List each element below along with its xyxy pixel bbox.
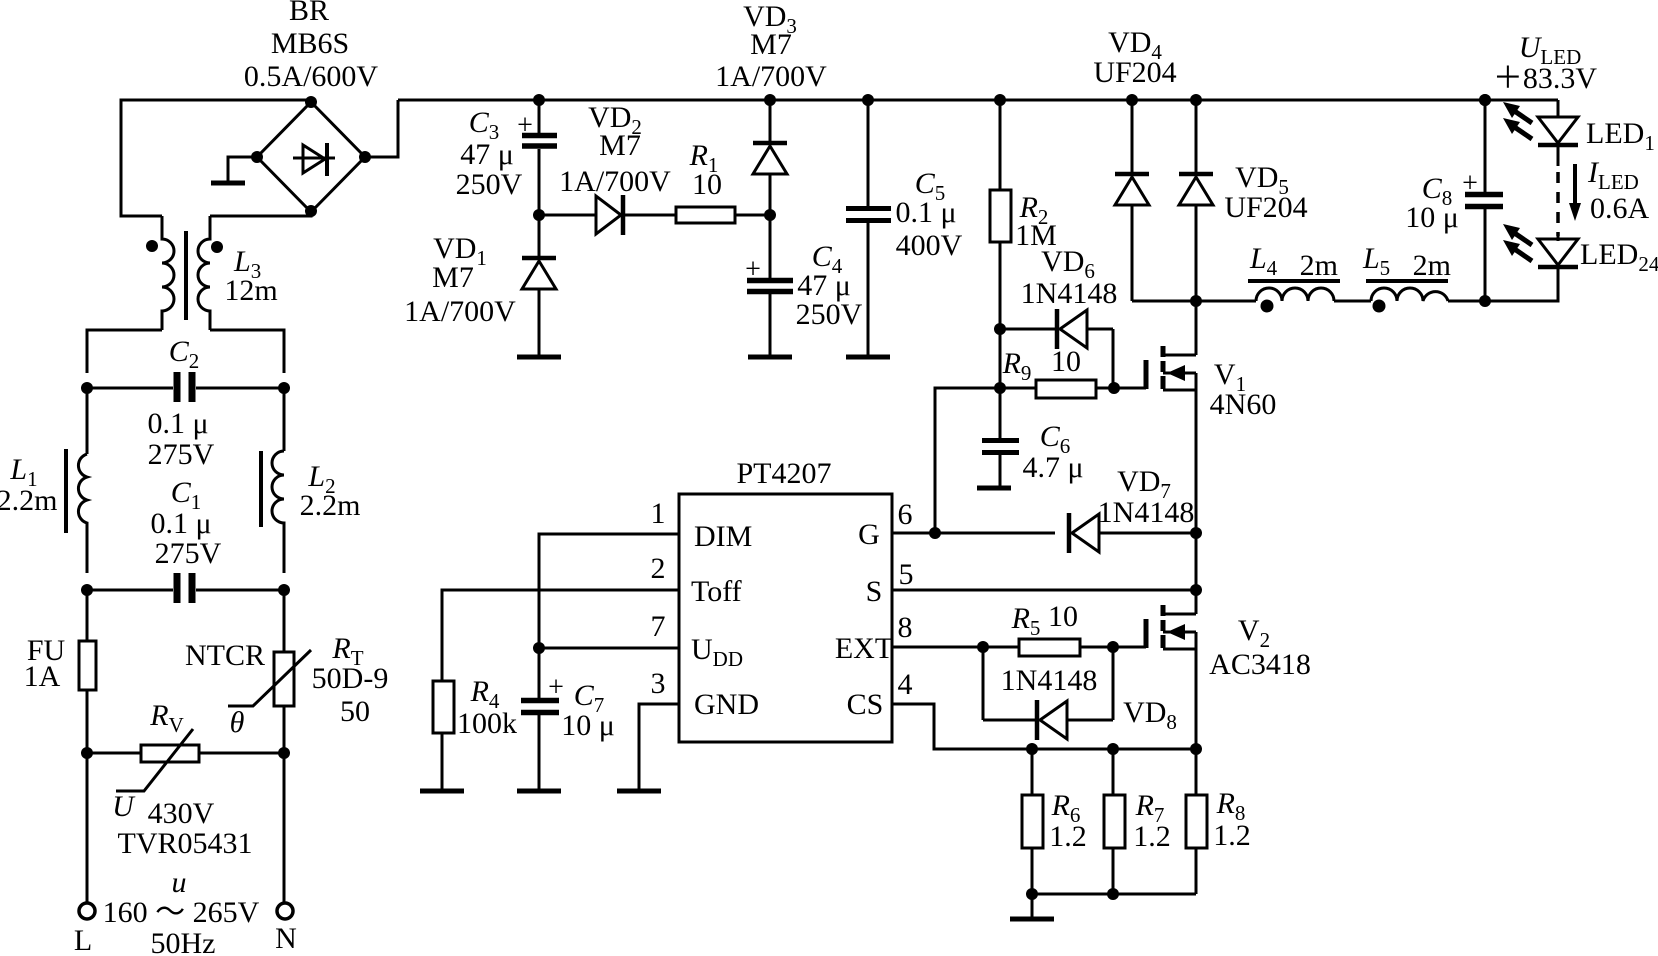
svg-text:＋83.3V: ＋83.3V: [1493, 62, 1598, 95]
svg-text:250V: 250V: [796, 298, 863, 331]
pin number 3: [651, 667, 666, 700]
inductor L4 core bar: [1248, 279, 1340, 283]
inductor L5 phasing dot: [1373, 300, 1386, 313]
svg-text:10: 10: [692, 168, 722, 201]
label R9: [1002, 347, 1032, 385]
label R2: [1019, 191, 1049, 229]
capacitor C6: [982, 388, 1019, 486]
diode VD4: [1115, 100, 1149, 301]
wire pin3 GND to ground: [639, 704, 679, 789]
pin number 7: [651, 610, 666, 643]
svg-text:10 μ: 10 μ: [1405, 201, 1459, 234]
wire pin5 S line: [892, 589, 1196, 592]
label L1: [9, 453, 37, 491]
label VD3 type M7: [750, 28, 792, 61]
label C1 value 275V: [155, 537, 222, 570]
label BR: [289, 0, 329, 27]
resistor R5: [1019, 639, 1146, 656]
capacitor C1: [87, 573, 284, 603]
label C2 value 275V: [148, 438, 215, 471]
svg-text:1: 1: [651, 497, 666, 530]
svg-text:430V: 430V: [148, 797, 215, 830]
label mains 160~265V: [103, 896, 260, 929]
resistor R2: [990, 100, 1011, 329]
bridge node dots: [251, 96, 371, 217]
svg-text:u: u: [172, 866, 187, 899]
label VD5: [1235, 161, 1289, 199]
label VD5 type UF204: [1224, 191, 1307, 224]
svg-text:8: 8: [898, 611, 913, 644]
varistor RV: [87, 729, 284, 791]
wire transformer bottom to right rail: [210, 330, 284, 373]
label L4 2m: [1249, 242, 1338, 282]
diode VD3: [753, 100, 787, 215]
wire right rail C2 to L2: [283, 388, 286, 451]
wire node A to VD2: [539, 214, 596, 217]
label C6: [1040, 420, 1071, 458]
svg-text:U: U: [112, 790, 136, 823]
label R1 value 10: [692, 168, 722, 201]
diode VD8 loop: [983, 647, 1113, 740]
label VD2 rating 1A/700V: [559, 165, 671, 198]
svg-text:1.2: 1.2: [1049, 820, 1087, 853]
wire left rail C2 to L1: [86, 388, 89, 454]
label C3: [469, 106, 500, 144]
label VD8 type 1N4148: [1001, 664, 1098, 697]
pin number 4: [898, 668, 913, 701]
svg-text:50: 50: [340, 695, 370, 728]
label NTCR: [185, 639, 265, 672]
label L3: [233, 245, 261, 283]
label C4 value 250V: [796, 298, 863, 331]
svg-text:50D-9: 50D-9: [312, 662, 389, 695]
label C5 value 0.1u: [895, 196, 956, 229]
inductor L5 core bar: [1366, 279, 1448, 283]
pin number 6: [898, 498, 913, 531]
label VD1: [433, 232, 487, 270]
wire from bridge AC input (bottom vertex) to transformer L3 right winding: [210, 211, 311, 216]
svg-text:N: N: [275, 922, 297, 955]
ground at pin3: [617, 789, 661, 794]
node A dot (C3/VD1/VD2): [533, 209, 545, 221]
wire pin6 G line: [892, 532, 1055, 535]
wire pin2 Toff to R4: [442, 590, 679, 681]
label R7 value 1.2: [1133, 820, 1171, 853]
svg-text:10: 10: [1048, 600, 1078, 633]
svg-text:1N4148: 1N4148: [1001, 664, 1098, 697]
svg-text:100k: 100k: [457, 707, 517, 740]
wire R1 to node B: [735, 214, 770, 217]
svg-text:+: +: [517, 110, 533, 141]
svg-text:M7: M7: [750, 28, 792, 61]
fuse FU: [79, 641, 96, 690]
transformer L3 core bar: [184, 231, 188, 320]
label FU: [27, 634, 66, 667]
current arrow ILED: [1569, 164, 1581, 221]
label C7: [574, 679, 605, 717]
svg-text:TVR05431: TVR05431: [118, 827, 253, 860]
label RV type TVR05431: [118, 827, 253, 860]
svg-text:7: 7: [651, 610, 666, 643]
svg-text:4.7 μ: 4.7 μ: [1022, 451, 1083, 484]
diode VD2: [596, 195, 623, 235]
label C5: [915, 167, 946, 205]
switch node dot V1 drain: [1190, 295, 1202, 307]
label L2: [307, 460, 335, 498]
label C3 plus: [517, 110, 533, 141]
svg-text:1N4148: 1N4148: [1021, 277, 1118, 310]
svg-text:4: 4: [898, 668, 913, 701]
label 0.5A/600V: [244, 60, 379, 93]
ground at C7: [517, 789, 561, 794]
label C2 value 0.1u: [147, 407, 208, 440]
label VD6: [1041, 245, 1095, 283]
svg-text:G: G: [858, 518, 880, 551]
label RT value 50: [340, 695, 370, 728]
op-amp U1 PT4207 box: [679, 494, 892, 742]
resistor R1: [676, 207, 735, 223]
label u: [172, 866, 187, 899]
label +83.3V: [1493, 62, 1598, 95]
terminal L: [79, 903, 95, 919]
label VD2: [588, 101, 642, 139]
label VD8: [1123, 696, 1177, 734]
label C3 value 250V: [456, 168, 523, 201]
svg-text:PT4207: PT4207: [736, 457, 831, 490]
svg-text:CS: CS: [847, 688, 884, 721]
resistor R4: [433, 681, 454, 789]
node dots RV: [81, 747, 290, 759]
label C8 value 10u: [1405, 201, 1459, 234]
label C2: [169, 335, 200, 373]
switch node wire VD4 to L4: [1132, 300, 1256, 303]
svg-text:1A/700V: 1A/700V: [559, 165, 671, 198]
label VD7 type 1N4148: [1098, 496, 1195, 529]
label R5 value 10: [1048, 600, 1078, 633]
svg-text:3: 3: [651, 667, 666, 700]
label R5: [1011, 602, 1041, 640]
label C8: [1422, 172, 1453, 210]
label V2: [1238, 614, 1270, 652]
node dot S line / V2 drain: [1190, 584, 1202, 596]
svg-text:EXT: EXT: [835, 632, 893, 665]
label pin Toff: [691, 575, 742, 608]
diode VD7: [1069, 513, 1196, 553]
label pin EXT: [835, 632, 893, 665]
label VD4: [1108, 26, 1162, 64]
label RV value 430V: [148, 797, 215, 830]
label ILED: [1587, 156, 1639, 194]
transformer L3 phasing dots: [146, 240, 223, 253]
svg-text:DIM: DIM: [694, 520, 752, 553]
svg-text:5: 5: [899, 558, 914, 591]
led LED1: [1503, 102, 1578, 145]
inductor L1: [78, 454, 87, 573]
capacitor C7: [521, 648, 559, 789]
svg-text:M7: M7: [432, 261, 474, 294]
svg-text:275V: 275V: [148, 438, 215, 471]
node dot R9 right / V1 gate: [1108, 382, 1120, 394]
pin number 5: [899, 558, 914, 591]
wire RV node to terminal N: [283, 753, 286, 902]
node dot V1 source / VD7: [1190, 527, 1202, 539]
svg-text:160 ～ 265V: 160 ～ 265V: [103, 896, 260, 929]
resistor R7: [1104, 749, 1125, 894]
label pin S: [866, 575, 883, 608]
ground at C4: [748, 355, 792, 360]
rail node dots: [533, 94, 1491, 106]
wire pin8 EXT to R5: [892, 646, 1019, 649]
label 0.6A: [1590, 192, 1650, 225]
transformer L3 right winding: [198, 216, 210, 330]
label L5 2m: [1362, 242, 1451, 282]
node dot R2/VD6: [994, 323, 1006, 335]
wire rail to LED1: [1557, 100, 1560, 117]
svg-text:1.2: 1.2: [1133, 820, 1171, 853]
label RV: [149, 699, 184, 737]
label C4 value 47u: [797, 269, 851, 302]
label MB6S: [271, 27, 349, 60]
label ULED: [1519, 31, 1582, 69]
capacitor C3: [522, 100, 557, 215]
svg-text:12m: 12m: [224, 274, 277, 307]
pin number 2: [651, 552, 666, 585]
label C4: [812, 240, 843, 278]
label C1: [171, 476, 202, 514]
label R2 value 1M: [1015, 219, 1057, 252]
svg-text:BR: BR: [289, 0, 329, 27]
svg-text:1A/700V: 1A/700V: [715, 60, 827, 93]
wire fuse to RV node: [86, 690, 89, 753]
bridge rectifier BR diamond: [257, 102, 365, 212]
label pin DIM: [694, 520, 752, 553]
ground at C5: [846, 355, 890, 360]
inductor L4 phasing dot: [1261, 300, 1274, 313]
wire from bridge AC input (top vertex) to transformer L3 left winding: [121, 100, 311, 216]
svg-text:2: 2: [651, 552, 666, 585]
svg-text:2.2m: 2.2m: [300, 489, 361, 522]
bridge BR inner diode symbol: [293, 143, 335, 176]
diode VD6: [1000, 309, 1113, 388]
label C8 plus: [1462, 168, 1478, 199]
label R7: [1135, 789, 1165, 827]
node dot R9 left: [994, 382, 1006, 394]
label PT4207: [736, 457, 831, 490]
wire pin1 DIM to UDD node: [539, 534, 679, 648]
svg-text:10: 10: [1051, 345, 1081, 378]
transistor V2 (MOSFET AC3418): [1146, 590, 1196, 749]
label VD7: [1117, 465, 1171, 503]
label L1 value 2.2m: [0, 484, 57, 517]
svg-text:6: 6: [898, 498, 913, 531]
svg-text:1A/700V: 1A/700V: [404, 295, 516, 328]
ground at R4: [420, 789, 464, 794]
label V1: [1214, 358, 1246, 396]
capacitor C2: [87, 372, 284, 402]
node dot R5 right / V2 gate: [1107, 641, 1119, 653]
wire R2 bottom to R9 node: [999, 329, 1002, 388]
led LED24: [1503, 224, 1578, 267]
svg-text:0.5A/600V: 0.5A/600V: [244, 60, 379, 93]
label R9 value 10: [1051, 345, 1081, 378]
inductor L2 core bar: [259, 451, 263, 527]
inductor L4: [1256, 288, 1334, 301]
pin number 8: [898, 611, 913, 644]
svg-text:Toff: Toff: [691, 575, 742, 608]
svg-text:250V: 250V: [456, 168, 523, 201]
capacitor C5: [846, 100, 891, 355]
label VD1 type M7: [432, 261, 474, 294]
wire VD2 to R1: [623, 214, 676, 217]
capacitor C4: [747, 215, 793, 355]
label V1 type 4N60: [1210, 388, 1277, 421]
resistor R9: [1000, 380, 1146, 398]
label V2 type AC3418: [1209, 648, 1311, 681]
wire from bridge + output to main HV rail: [365, 100, 398, 157]
ground at sense resistors: [1010, 894, 1054, 919]
label pin UDD: [691, 633, 743, 671]
label VD3 rating 1A/700V: [715, 60, 827, 93]
svg-text:47 μ: 47 μ: [460, 138, 514, 171]
ground at bridge minus terminal: [211, 157, 257, 183]
inductor L2: [272, 451, 284, 573]
wire transformer bottom to left rail: [87, 330, 162, 373]
svg-text:GND: GND: [694, 688, 759, 721]
label R8 value 1.2: [1213, 819, 1251, 852]
dashed wire LED string: [1557, 145, 1560, 241]
svg-text:1.2: 1.2: [1213, 819, 1251, 852]
transformer L3 left winding: [162, 216, 174, 330]
label RT value 50D-9: [312, 662, 389, 695]
wire LED24 to return rail: [1448, 267, 1558, 301]
label R4: [470, 675, 500, 713]
node B dot (VD3/R1/C4): [764, 209, 776, 221]
node dots C1: [81, 584, 290, 596]
label R6 value 1.2: [1049, 820, 1087, 853]
inductor L5: [1371, 288, 1448, 301]
resistor R8: [1186, 749, 1207, 894]
label VD3: [743, 0, 797, 38]
label 12m: [224, 274, 277, 307]
label U: [112, 790, 136, 823]
label VD1 rating 1A/700V: [404, 295, 516, 328]
label LED24: [1580, 238, 1658, 276]
svg-text:10 μ: 10 μ: [561, 709, 615, 742]
diode VD5: [1179, 100, 1213, 301]
node dot UDD/C7: [533, 642, 545, 654]
svg-text:L: L: [74, 924, 92, 956]
label L: [74, 924, 92, 956]
wire left rail C1 to fuse: [86, 590, 89, 641]
svg-text:AC3418: AC3418: [1209, 648, 1311, 681]
svg-text:MB6S: MB6S: [271, 27, 349, 60]
svg-text:50Hz: 50Hz: [151, 927, 216, 956]
svg-text:UF204: UF204: [1093, 56, 1176, 89]
label C1 value 0.1u: [150, 507, 211, 540]
label 50Hz: [151, 927, 216, 956]
svg-text:0.1 μ: 0.1 μ: [147, 407, 208, 440]
label R4 value 100k: [457, 707, 517, 740]
label C4 plus: [745, 254, 761, 285]
inductor L1 core bar: [64, 449, 68, 533]
svg-text:S: S: [866, 575, 883, 608]
svg-text:1A: 1A: [24, 660, 61, 693]
node dots C8: [1479, 94, 1491, 307]
node dot G line: [929, 527, 941, 539]
wire right rail C1 to RT: [283, 590, 286, 652]
svg-text:+: +: [1462, 168, 1478, 199]
svg-text:2.2m: 2.2m: [0, 484, 57, 517]
wire pin4 CS to sense node: [892, 704, 1196, 749]
label R8: [1216, 787, 1246, 825]
label L2 value 2.2m: [300, 489, 361, 522]
label pin G: [858, 518, 880, 551]
transistor V1 (MOSFET 4N60): [1146, 301, 1196, 590]
label pin GND: [694, 688, 759, 721]
label RT: [331, 632, 363, 670]
svg-text:400V: 400V: [896, 229, 963, 262]
svg-text:+: +: [548, 672, 564, 703]
main HV rail wire: [398, 99, 1558, 102]
label R1: [689, 139, 719, 177]
sense node dots: [1026, 743, 1202, 755]
svg-text:4N60: 4N60: [1210, 388, 1277, 421]
wire pin7 UDD: [539, 647, 679, 650]
label VD2 type M7: [599, 129, 641, 162]
pin number 1: [651, 497, 666, 530]
label C7 plus: [548, 672, 564, 703]
label C3 value 47u: [460, 138, 514, 171]
wire RT to RV node: [283, 706, 286, 753]
wire L5 to C8 node: [1448, 300, 1558, 303]
node dots C2: [81, 382, 290, 394]
label VD4 type UF204: [1093, 56, 1176, 89]
ground at C6: [977, 486, 1011, 491]
label LED1: [1586, 117, 1655, 155]
label R6: [1051, 789, 1081, 827]
sense bottom wire: [1032, 893, 1196, 896]
wire RV node to terminal L: [86, 753, 89, 902]
label FU value 1A: [24, 660, 61, 693]
svg-text:+: +: [745, 254, 761, 285]
capacitor C8: [1465, 100, 1503, 301]
svg-text:275V: 275V: [155, 537, 222, 570]
svg-text:0.6A: 0.6A: [1590, 192, 1650, 225]
svg-text:NTCR: NTCR: [185, 639, 265, 672]
thermistor RT: [228, 650, 311, 706]
label VD6 type 1N4148: [1021, 277, 1118, 310]
resistor R6: [1022, 749, 1043, 894]
label C7 value 10u: [561, 709, 615, 742]
diode VD1: [522, 215, 556, 355]
wire L4 to L5: [1334, 300, 1371, 303]
wire R9 node to PT4207 G line: [935, 388, 1000, 533]
label N: [275, 922, 297, 955]
label pin CS: [847, 688, 884, 721]
label C5 value 400V: [896, 229, 963, 262]
svg-text:M7: M7: [599, 129, 641, 162]
svg-text:0.1 μ: 0.1 μ: [150, 507, 211, 540]
terminal N: [277, 903, 293, 919]
svg-text:θ: θ: [230, 706, 245, 739]
svg-text:UF204: UF204: [1224, 191, 1307, 224]
ground at VD1: [517, 355, 561, 360]
svg-text:0.1 μ: 0.1 μ: [895, 196, 956, 229]
node dot R5 left: [977, 641, 989, 653]
label theta: [230, 706, 245, 739]
bottom node dots: [1026, 888, 1119, 900]
label C6 value 4.7u: [1022, 451, 1083, 484]
